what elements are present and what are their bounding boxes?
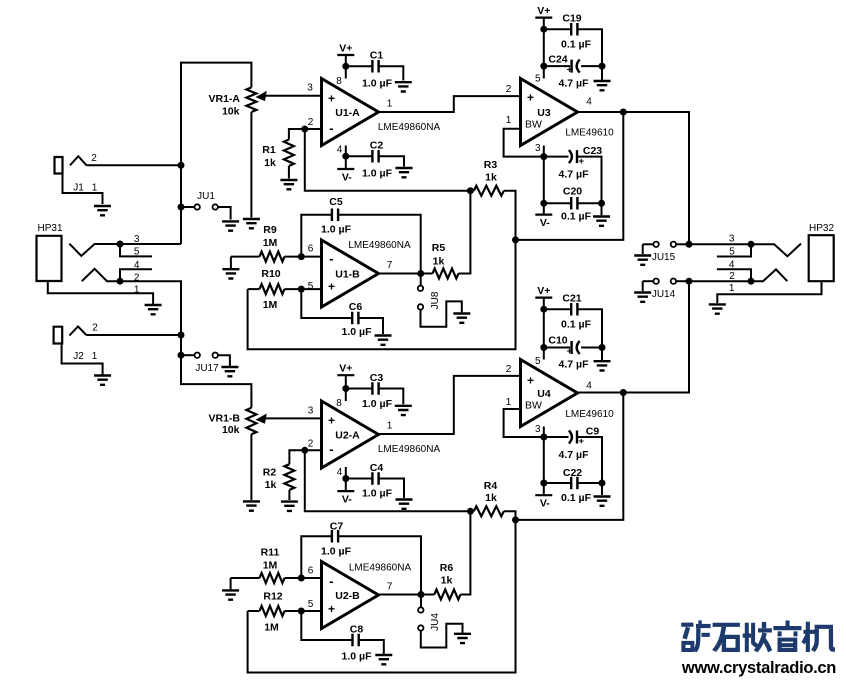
svg-text:1k: 1k: [433, 256, 445, 268]
svg-text:JU17: JU17: [195, 363, 219, 374]
svg-text:2: 2: [506, 364, 512, 375]
svg-text:5: 5: [729, 246, 735, 257]
capacitor C22 0.1 uF: [544, 467, 602, 504]
wire U2-A output to U4 pin2: [379, 376, 521, 434]
svg-text:8: 8: [336, 398, 342, 409]
node U3 output: [620, 109, 627, 116]
svg-text:R5: R5: [432, 242, 446, 254]
svg-text:V-: V-: [342, 494, 352, 506]
wire U1-B output: [379, 273, 421, 275]
svg-text:4: 4: [586, 97, 592, 108]
jumper JU15: [643, 241, 693, 263]
svg-text:C19: C19: [562, 13, 581, 25]
ground (VR1-A): [243, 219, 260, 228]
capacitor C19 0.1 uF: [544, 13, 602, 67]
svg-text:2: 2: [729, 271, 735, 282]
svg-text:C22: C22: [563, 467, 582, 479]
svg-text:R6: R6: [440, 562, 454, 574]
wire U4 pin3 rail: [540, 427, 547, 487]
wire HP31 pin3 to trunk A: [120, 243, 181, 245]
op-amp U2-A LME49860NA: [308, 398, 441, 478]
svg-text:4.7 µF: 4.7 µF: [559, 169, 590, 181]
capacitor C9 4.7 uF (polarized): [544, 426, 602, 484]
svg-text:LME49610: LME49610: [565, 128, 614, 139]
ground (JU8): [453, 314, 470, 323]
svg-text:+: +: [328, 414, 335, 428]
node U2-B pin5: [298, 608, 305, 615]
svg-text:1k: 1k: [265, 479, 277, 491]
wire U2-B output: [379, 594, 422, 596]
capacitor C6 1.0 uF: [301, 289, 383, 338]
svg-text:U3: U3: [537, 107, 551, 119]
ground (C4): [396, 500, 413, 509]
node R3 right / U3 output branch: [512, 236, 519, 243]
svg-text:1k: 1k: [485, 492, 497, 504]
node U2-A pin2: [301, 447, 308, 454]
wire J1 pin2 to trunk A: [87, 164, 182, 166]
svg-text:4: 4: [337, 467, 343, 478]
connector J1 (input jack A): [55, 153, 98, 194]
svg-text:1.0 µF: 1.0 µF: [342, 326, 373, 338]
svg-text:VR1-B: VR1-B: [208, 413, 240, 425]
svg-text:5: 5: [134, 247, 140, 258]
svg-text:3: 3: [307, 83, 313, 94]
svg-text:R2: R2: [263, 467, 277, 479]
ground (C1): [395, 82, 412, 91]
power V- (U1-A pin 4): [337, 146, 354, 184]
ground (JU17): [221, 367, 238, 376]
svg-text:1: 1: [92, 351, 98, 362]
svg-text:V-: V-: [540, 498, 550, 510]
wire R11 to ground: [230, 578, 232, 589]
node U1-A pin2: [301, 126, 308, 133]
svg-text:U4: U4: [537, 388, 551, 400]
svg-text:C1: C1: [370, 50, 384, 62]
svg-text:V+: V+: [537, 5, 550, 17]
svg-text:C23: C23: [583, 145, 602, 157]
capacitor C7 1.0 uF (U2-B feedback): [301, 521, 421, 595]
watermark crystalradio logo: [681, 620, 835, 652]
wire R3 node to R10 (feedback B input): [248, 240, 516, 349]
svg-text:5: 5: [308, 281, 314, 292]
svg-text:R1: R1: [262, 144, 276, 156]
svg-text:3: 3: [729, 234, 735, 245]
wire trunk B (HP31 pin2 to J2, JU17, VR1-B): [120, 281, 251, 408]
resistor R9 1M: [231, 224, 322, 262]
svg-text:JU4: JU4: [430, 613, 441, 631]
svg-text:R9: R9: [263, 224, 277, 236]
wire R4 node to U4 output: [516, 393, 624, 520]
ground (HP31 sleeve): [145, 305, 162, 314]
svg-text:1M: 1M: [263, 560, 278, 572]
svg-text:R12: R12: [263, 591, 282, 603]
power V- (U3 pin 3 rail): [535, 203, 552, 229]
node U1-B output / JU8: [417, 270, 424, 277]
svg-text:3: 3: [535, 424, 541, 435]
svg-text:LME49860NA: LME49860NA: [378, 122, 441, 133]
wire C10 right to ground: [601, 348, 603, 361]
headphone jack HP31: [37, 223, 154, 304]
power V+ (U4 pin 5): [535, 285, 552, 359]
svg-text:R3: R3: [484, 159, 498, 171]
resistor R11 1M: [231, 547, 322, 584]
ground (JU1): [222, 221, 239, 230]
wire VR1-B bottom to ground: [250, 434, 252, 500]
ground (C6): [375, 336, 392, 345]
wire U3 output to JU15: [578, 112, 690, 244]
svg-text:HP32: HP32: [809, 223, 834, 234]
svg-text:+: +: [579, 436, 585, 447]
svg-text:+: +: [579, 156, 585, 167]
wire R4 node to R12 (feedback): [248, 520, 516, 673]
jumper JU8: [418, 274, 462, 327]
ground (R1): [280, 180, 297, 189]
wire J1 sleeve to ground: [63, 174, 103, 205]
resistor R3 1k: [474, 159, 516, 240]
svg-text:1k: 1k: [441, 575, 453, 587]
node U4 output: [620, 389, 627, 396]
svg-text:C24: C24: [548, 54, 567, 66]
svg-text:C3: C3: [370, 372, 384, 384]
svg-text:JU15: JU15: [652, 252, 676, 263]
svg-text:0.1 µF: 0.1 µF: [561, 492, 592, 504]
svg-text:JU1: JU1: [197, 191, 215, 202]
node U2-B output / JU4: [418, 591, 425, 598]
svg-text:1: 1: [506, 115, 512, 126]
svg-text:U2-B: U2-B: [335, 590, 360, 602]
node R4 right / U4 output branch: [512, 516, 519, 523]
op-amp U2-B LME49860NA: [308, 562, 412, 629]
ground (C8): [375, 655, 392, 664]
wire J2 pin2 to trunk B: [86, 334, 181, 336]
resistor R6 1k: [421, 511, 470, 599]
wire JU14 to HP32 pin2: [689, 280, 751, 282]
capacitor C21 0.1 uF: [544, 293, 602, 348]
svg-text:1: 1: [506, 397, 512, 408]
svg-text:1: 1: [92, 183, 98, 194]
svg-text:V-: V-: [342, 172, 352, 184]
svg-text:1.0 µF: 1.0 µF: [321, 546, 352, 558]
svg-text:+: +: [328, 92, 335, 106]
wire JU15 to HP32 pin3: [689, 243, 751, 245]
svg-text:C10: C10: [548, 335, 567, 347]
op-amp U4 LME49610: [506, 356, 614, 435]
power V+ (U3 pin 5): [535, 5, 552, 78]
capacitor C3 1.0 uF: [346, 372, 404, 410]
jumper JU4: [418, 595, 462, 648]
svg-text:0.1 µF: 0.1 µF: [561, 319, 592, 331]
resistor R12 1M: [248, 591, 322, 634]
svg-text:-: -: [329, 251, 333, 266]
svg-text:1k: 1k: [264, 157, 276, 169]
node R4 left / R6 junction: [467, 508, 474, 515]
svg-text:5: 5: [308, 599, 314, 610]
svg-text:0.1 µF: 0.1 µF: [561, 211, 592, 223]
svg-text:1.0 µF: 1.0 µF: [342, 651, 373, 663]
svg-text:6: 6: [308, 244, 314, 255]
svg-text:1M: 1M: [263, 237, 278, 249]
ground (VR1-B): [243, 501, 260, 510]
resistor R10 1M: [248, 268, 322, 311]
op-amp U3 LME49610: [506, 73, 614, 154]
node C10 right rail: [599, 344, 606, 351]
wire U3 BW pin1 to pin3: [504, 129, 544, 157]
ground (R11): [222, 590, 239, 599]
capacitor C8 1.0 uF: [301, 611, 384, 663]
power V+ (U1-A pin 8): [337, 43, 354, 79]
power V- (U4 pin 3 rail): [535, 483, 552, 510]
svg-text:C7: C7: [330, 521, 344, 533]
svg-text:4: 4: [729, 259, 735, 270]
svg-text:BW: BW: [525, 119, 542, 131]
wire U4 output to JU14: [578, 281, 690, 392]
svg-text:C20: C20: [563, 186, 582, 198]
svg-text:1.0 µF: 1.0 µF: [321, 224, 352, 236]
ground (JU14): [634, 293, 651, 302]
svg-text:LME49860NA: LME49860NA: [348, 240, 411, 251]
resistor R4 1k: [474, 480, 516, 520]
svg-text:+: +: [328, 280, 335, 294]
ground (JU15): [634, 256, 651, 265]
svg-text:5: 5: [535, 73, 541, 84]
svg-text:1M: 1M: [263, 299, 278, 311]
ground (J1): [94, 206, 111, 215]
ground (C20): [593, 217, 610, 226]
svg-text:+: +: [567, 65, 573, 76]
svg-text:V+: V+: [339, 43, 352, 55]
node C24/C19 right rail: [599, 63, 606, 70]
svg-text:LME49610: LME49610: [565, 409, 614, 420]
wire VR1-A bottom to ground: [250, 112, 252, 218]
wire U4 BW pin1 to pin3: [504, 409, 544, 437]
node J1 pin2 / trunk A: [178, 162, 185, 169]
op-amp U1-B LME49860NA: [308, 240, 411, 307]
resistor R2 1k: [263, 450, 322, 500]
svg-text:U1-A: U1-A: [335, 107, 360, 119]
wire J2 sleeve to ground: [62, 344, 103, 375]
svg-text:HP31: HP31: [37, 223, 62, 234]
node R3 left / R5 junction: [467, 187, 474, 194]
svg-text:1: 1: [387, 421, 393, 432]
svg-text:1.0 µF: 1.0 µF: [362, 488, 393, 500]
svg-text:+: +: [527, 91, 534, 105]
wire U1-A pin2 feedback to R3 node: [305, 129, 471, 191]
jumper JU17: [178, 352, 230, 374]
svg-text:1: 1: [134, 285, 140, 296]
node U1-B pin5: [298, 286, 305, 293]
power V- (U2-A pin 4): [337, 467, 354, 506]
svg-text:2: 2: [506, 84, 512, 95]
svg-text:-: -: [329, 120, 333, 135]
ground (C10): [594, 361, 611, 370]
svg-text:U2-A: U2-A: [335, 430, 360, 442]
capacitor C4 1.0 uF: [346, 462, 404, 500]
svg-text:R11: R11: [261, 547, 280, 559]
svg-text:C21: C21: [562, 293, 581, 305]
svg-text:R10: R10: [261, 268, 280, 280]
wire U2-A pin2 feedback to R4 node: [305, 450, 471, 511]
ground (C24): [594, 81, 611, 90]
svg-text:VR1-A: VR1-A: [208, 93, 240, 105]
ground (R2): [281, 502, 298, 511]
svg-text:C4: C4: [370, 462, 384, 474]
svg-text:6: 6: [308, 566, 314, 577]
node J2 pin2 / trunk B: [178, 332, 185, 339]
node C20 right: [598, 200, 605, 207]
svg-text:R4: R4: [484, 480, 498, 492]
capacitor C2 1.0 uF: [346, 140, 404, 180]
svg-text:2: 2: [92, 323, 98, 334]
svg-text:4: 4: [337, 145, 343, 156]
capacitor C24 4.7 uF (polarized): [544, 54, 602, 90]
svg-text:2: 2: [308, 439, 314, 450]
wire R3 node to U3 output: [516, 112, 624, 240]
svg-text:-: -: [329, 442, 333, 457]
potentiometer VR1-A 10k: [208, 87, 321, 117]
svg-text:1.0 µF: 1.0 µF: [362, 398, 393, 410]
svg-text:J1: J1: [73, 183, 84, 194]
connector J2 (input jack B): [54, 323, 99, 363]
ground (C3): [395, 406, 412, 415]
wire R9 to ground: [230, 257, 232, 269]
svg-text:7: 7: [387, 260, 393, 271]
node U1-B pin6: [298, 253, 305, 260]
svg-text:1M: 1M: [264, 622, 279, 634]
capacitor C5 1.0 uF (U1-B feedback): [301, 196, 420, 274]
svg-text:C8: C8: [350, 624, 364, 636]
capacitor C20 0.1 uF: [544, 186, 602, 223]
svg-text:10k: 10k: [222, 106, 240, 118]
node C22 right: [599, 480, 606, 487]
wire C20 right to ground: [601, 203, 603, 215]
svg-text:-: -: [329, 574, 333, 589]
svg-text:8: 8: [336, 76, 342, 87]
svg-text:J2: J2: [73, 351, 84, 362]
svg-text:1: 1: [387, 99, 393, 110]
svg-text:LME49860NA: LME49860NA: [349, 563, 412, 574]
ground (C22): [594, 497, 611, 506]
svg-text:JU8: JU8: [430, 291, 441, 309]
ground (HP32 sleeve): [709, 304, 726, 313]
svg-text:C6: C6: [349, 301, 363, 313]
svg-text:C2: C2: [370, 140, 384, 152]
svg-text:4.7 µF: 4.7 µF: [559, 359, 590, 371]
wire U3 pin3 rail: [540, 146, 547, 207]
svg-text:7: 7: [387, 582, 393, 593]
svg-text:www.crystalradio.cn: www.crystalradio.cn: [681, 659, 836, 677]
svg-text:+: +: [567, 346, 573, 357]
headphone jack HP32: [717, 223, 835, 303]
svg-text:JU14: JU14: [652, 289, 676, 300]
svg-text:4.7 µF: 4.7 µF: [559, 449, 590, 461]
resistor R5 1k: [421, 191, 471, 279]
svg-text:C9: C9: [586, 426, 600, 438]
ground (C2): [396, 168, 413, 177]
svg-text:3: 3: [308, 406, 314, 417]
capacitor C10 4.7 uF (polarized): [544, 335, 602, 371]
wire U1-A output to U3 pin2: [379, 96, 521, 112]
svg-text:V+: V+: [537, 285, 550, 297]
op-amp U1-A LME49860NA: [307, 76, 440, 156]
jumper JU14: [643, 278, 693, 300]
svg-text:2: 2: [308, 117, 314, 128]
svg-text:1: 1: [729, 283, 735, 294]
wire trunk A (J1 to VR1-A top and down to HP31 pin3): [181, 63, 251, 244]
jumper JU1: [178, 191, 231, 220]
svg-text:4: 4: [134, 260, 140, 271]
node U2-B pin6: [298, 575, 305, 582]
svg-text:0.1 µF: 0.1 µF: [561, 39, 592, 51]
resistor R1 1k: [262, 129, 321, 179]
svg-text:5: 5: [535, 356, 541, 367]
svg-text:4.7 µF: 4.7 µF: [559, 78, 590, 90]
svg-text:1k: 1k: [485, 172, 497, 184]
svg-text:+: +: [527, 374, 534, 388]
svg-text:V+: V+: [339, 363, 352, 375]
svg-text:BW: BW: [525, 400, 542, 412]
svg-text:1.0 µF: 1.0 µF: [362, 78, 393, 90]
svg-text:+: +: [328, 602, 335, 616]
svg-text:3: 3: [535, 143, 541, 154]
wire C22 right to ground: [601, 483, 603, 495]
svg-text:LME49860NA: LME49860NA: [378, 444, 441, 455]
ground (JU4): [454, 634, 471, 643]
potentiometer VR1-B 10k: [208, 408, 321, 436]
ground (J2): [94, 376, 111, 385]
svg-text:2: 2: [91, 153, 97, 164]
svg-text:U1-B: U1-B: [335, 269, 360, 281]
svg-text:V-: V-: [540, 217, 550, 229]
svg-text:1.0 µF: 1.0 µF: [362, 168, 393, 180]
power V+ (U2-A pin 8): [337, 363, 354, 401]
svg-text:4: 4: [586, 381, 592, 392]
wire C24 right to ground: [601, 66, 603, 80]
capacitor C1 1.0 uF: [346, 50, 404, 90]
ground (R9): [222, 269, 239, 278]
svg-text:10k: 10k: [222, 424, 240, 436]
capacitor C23 4.7 uF (polarized): [544, 145, 602, 203]
svg-text:C5: C5: [329, 196, 343, 208]
